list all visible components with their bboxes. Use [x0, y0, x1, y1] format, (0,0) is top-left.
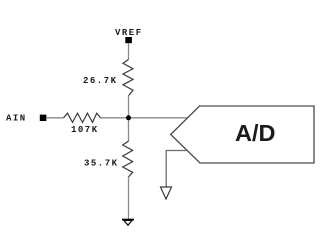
svg-text:35.7K: 35.7K: [84, 159, 119, 169]
svg-text:107K: 107K: [71, 125, 99, 135]
op-amp block A/D outline: [171, 106, 314, 163]
resistor 35.7K body: [123, 141, 133, 177]
wire A/D lower pin to ground: [166, 151, 186, 188]
wire AIN square to resistor 107K: [46, 117, 64, 119]
junction dot node: [126, 115, 131, 120]
wire resistor 35.7K bottom to ground: [128, 177, 130, 220]
wire VREF square to resistor R top: [128, 43, 130, 60]
resistor 26.7K body: [123, 60, 133, 96]
terminal square AIN: [40, 115, 47, 121]
resistor 107K body: [64, 113, 101, 122]
wire resistor 107K to A/D input: [101, 117, 188, 119]
svg-text:26.7K: 26.7K: [83, 76, 118, 86]
wire resistor 26.7K bottom to node: [128, 96, 130, 142]
ground symbol under A/D (open triangle): [161, 187, 172, 199]
ground symbol bottom (bar + open triangle): [122, 219, 134, 221]
svg-text:AIN: AIN: [6, 114, 27, 124]
terminal square VREF: [125, 37, 132, 43]
svg-text:A/D: A/D: [235, 120, 275, 146]
svg-text:VREF: VREF: [115, 28, 143, 38]
